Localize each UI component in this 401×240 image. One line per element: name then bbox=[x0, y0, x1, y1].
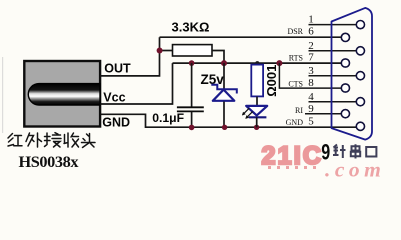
LED D2 bottom lead bbox=[256, 117, 258, 127]
svg-text:21IC: 21IC bbox=[262, 142, 324, 170]
svg-text:3: 3 bbox=[308, 65, 314, 77]
svg-text:3.3KΩ: 3.3KΩ bbox=[172, 19, 210, 34]
char 收 bbox=[64, 133, 79, 147]
svg-text:0.1μF: 0.1μF bbox=[152, 111, 184, 125]
label 3.3KΩ bbox=[172, 19, 210, 34]
DB9 pin hole 1 bbox=[356, 21, 364, 29]
label 9 (of 9针串口) bbox=[321, 141, 330, 165]
junction dot GND / capacitor bbox=[189, 125, 195, 131]
label 100Ω (rotated) bbox=[264, 65, 279, 97]
label 针串口 (drawn strokes) bbox=[333, 144, 376, 158]
svg-text:RTS: RTS bbox=[289, 53, 303, 62]
pin label RTS bbox=[289, 53, 303, 62]
char 红 bbox=[8, 134, 22, 147]
svg-text:1: 1 bbox=[308, 14, 314, 26]
capacitor C1 bottom lead bbox=[191, 112, 193, 127]
svg-text:6: 6 bbox=[308, 26, 314, 38]
IR receiver lens bbox=[28, 84, 100, 105]
LED D2 emission arrows bbox=[242, 108, 253, 119]
DB9 pin hole 7 bbox=[341, 59, 349, 67]
capacitor C1 0.1μF top lead bbox=[191, 63, 193, 106]
wire pin 2 stub bbox=[309, 50, 357, 52]
watermark .com bbox=[325, 157, 385, 181]
junction dot GND / LED bbox=[254, 125, 259, 130]
zener diode D1 bottom lead bbox=[223, 102, 225, 128]
svg-text:9: 9 bbox=[321, 141, 330, 165]
svg-text:7: 7 bbox=[308, 52, 314, 64]
DB9 pin hole 2 bbox=[356, 47, 364, 55]
DB9 pin hole 4 bbox=[356, 98, 364, 106]
svg-text:Ω001: Ω001 bbox=[264, 65, 279, 97]
char 接 bbox=[45, 133, 62, 147]
wire pin 3 stub bbox=[309, 75, 357, 77]
label Vcc bbox=[103, 90, 125, 104]
svg-text:CTS: CTS bbox=[288, 79, 303, 88]
LED D2 triangle bbox=[246, 106, 267, 116]
pin label GND (connector) bbox=[286, 118, 304, 127]
DB9 pin hole 5 bbox=[356, 122, 364, 130]
svg-text:4: 4 bbox=[308, 91, 314, 103]
capacitor C1 plates bbox=[177, 107, 204, 111]
pin label RI bbox=[295, 106, 303, 115]
pin number 6 bbox=[308, 26, 314, 38]
wire GND pin to GND rail bbox=[101, 114, 357, 127]
svg-text:2: 2 bbox=[308, 40, 314, 52]
svg-text:9: 9 bbox=[308, 103, 314, 115]
junction dot rail / CTS jog bbox=[276, 60, 282, 66]
DB9 pin hole 8 bbox=[341, 84, 349, 92]
pin number 3 bbox=[308, 65, 314, 77]
LED D2 cathode bar bbox=[249, 116, 267, 118]
svg-text:GND: GND bbox=[102, 115, 130, 129]
DB9 pin hole 9 bbox=[341, 110, 349, 118]
wire Vcc pin bbox=[101, 63, 173, 104]
junction dot rail / 100Ω resistor bbox=[255, 61, 259, 65]
wire resistor R1 right lead to Vcc rail bbox=[212, 51, 224, 64]
label 红外接收头 (IR receiver, drawn strokes) bbox=[8, 133, 95, 148]
pin number 8 bbox=[308, 77, 314, 89]
pin label CTS bbox=[288, 79, 303, 88]
svg-text:HS0038x: HS0038x bbox=[19, 152, 80, 171]
wire OUT pin to vertical riser bbox=[101, 37, 160, 76]
pin number 4 bbox=[308, 91, 314, 103]
scan artifact left edge line bbox=[2, 57, 3, 133]
junction dot rail / capacitor bbox=[189, 60, 195, 66]
label 0.1μF bbox=[152, 111, 184, 125]
char 串 bbox=[351, 144, 360, 158]
junction dot rail / R1 / zener bbox=[221, 60, 227, 66]
wire CTS jog from rail bbox=[279, 63, 341, 88]
label OUT bbox=[104, 61, 131, 75]
wire Vcc rail to RTS bbox=[173, 62, 342, 64]
pin number 1 bbox=[308, 14, 314, 26]
label GND bbox=[102, 115, 130, 129]
svg-text:8: 8 bbox=[308, 77, 314, 89]
label Z5v bbox=[201, 72, 225, 87]
label HS0038x bbox=[19, 152, 80, 171]
pin number 9 bbox=[308, 103, 314, 115]
char 口 bbox=[366, 147, 376, 157]
wire resistor R1 left lead bbox=[160, 50, 173, 52]
DB9 pin hole 3 bbox=[356, 72, 364, 80]
svg-text:GND: GND bbox=[286, 118, 304, 127]
resistor R2 bottom lead bbox=[256, 97, 258, 107]
char 针 bbox=[333, 145, 346, 159]
watermark dotted underline bbox=[268, 166, 316, 169]
DB9 pin hole 6 bbox=[341, 33, 349, 41]
char 外 bbox=[26, 133, 42, 147]
char 头 bbox=[82, 134, 96, 148]
resistor R1 3.3KΩ body bbox=[173, 45, 213, 56]
DB9 connector J1 shell bbox=[332, 8, 373, 140]
zener diode D1 cathode bar with wings bbox=[211, 85, 237, 94]
zener diode D1 triangle bbox=[213, 90, 235, 101]
pin number 5 bbox=[308, 116, 314, 128]
resistor R2 100Ω body bbox=[251, 65, 263, 97]
svg-text:RI: RI bbox=[295, 106, 303, 115]
IR receiver module U1 body bbox=[24, 61, 100, 127]
wire OUT to DSR (top rail) bbox=[160, 36, 342, 38]
junction dot GND / zener bbox=[222, 125, 227, 130]
pin number 2 bbox=[308, 40, 314, 52]
svg-text:Vcc: Vcc bbox=[103, 90, 125, 104]
wire pin 4 stub bbox=[309, 101, 357, 103]
svg-text:DSR: DSR bbox=[287, 27, 303, 36]
wire pin 1 stub bbox=[309, 24, 357, 26]
pin label DSR bbox=[287, 27, 303, 36]
svg-text:OUT: OUT bbox=[104, 61, 131, 75]
wire RI stub bbox=[305, 113, 342, 115]
pin number 7 bbox=[308, 52, 314, 64]
svg-text:5: 5 bbox=[308, 116, 314, 128]
watermark 21IC bbox=[262, 142, 324, 170]
junction dot OUT / R1 bbox=[157, 48, 163, 54]
svg-text:.com: .com bbox=[325, 157, 385, 181]
zener diode D1 Z5v top lead bbox=[223, 63, 225, 89]
